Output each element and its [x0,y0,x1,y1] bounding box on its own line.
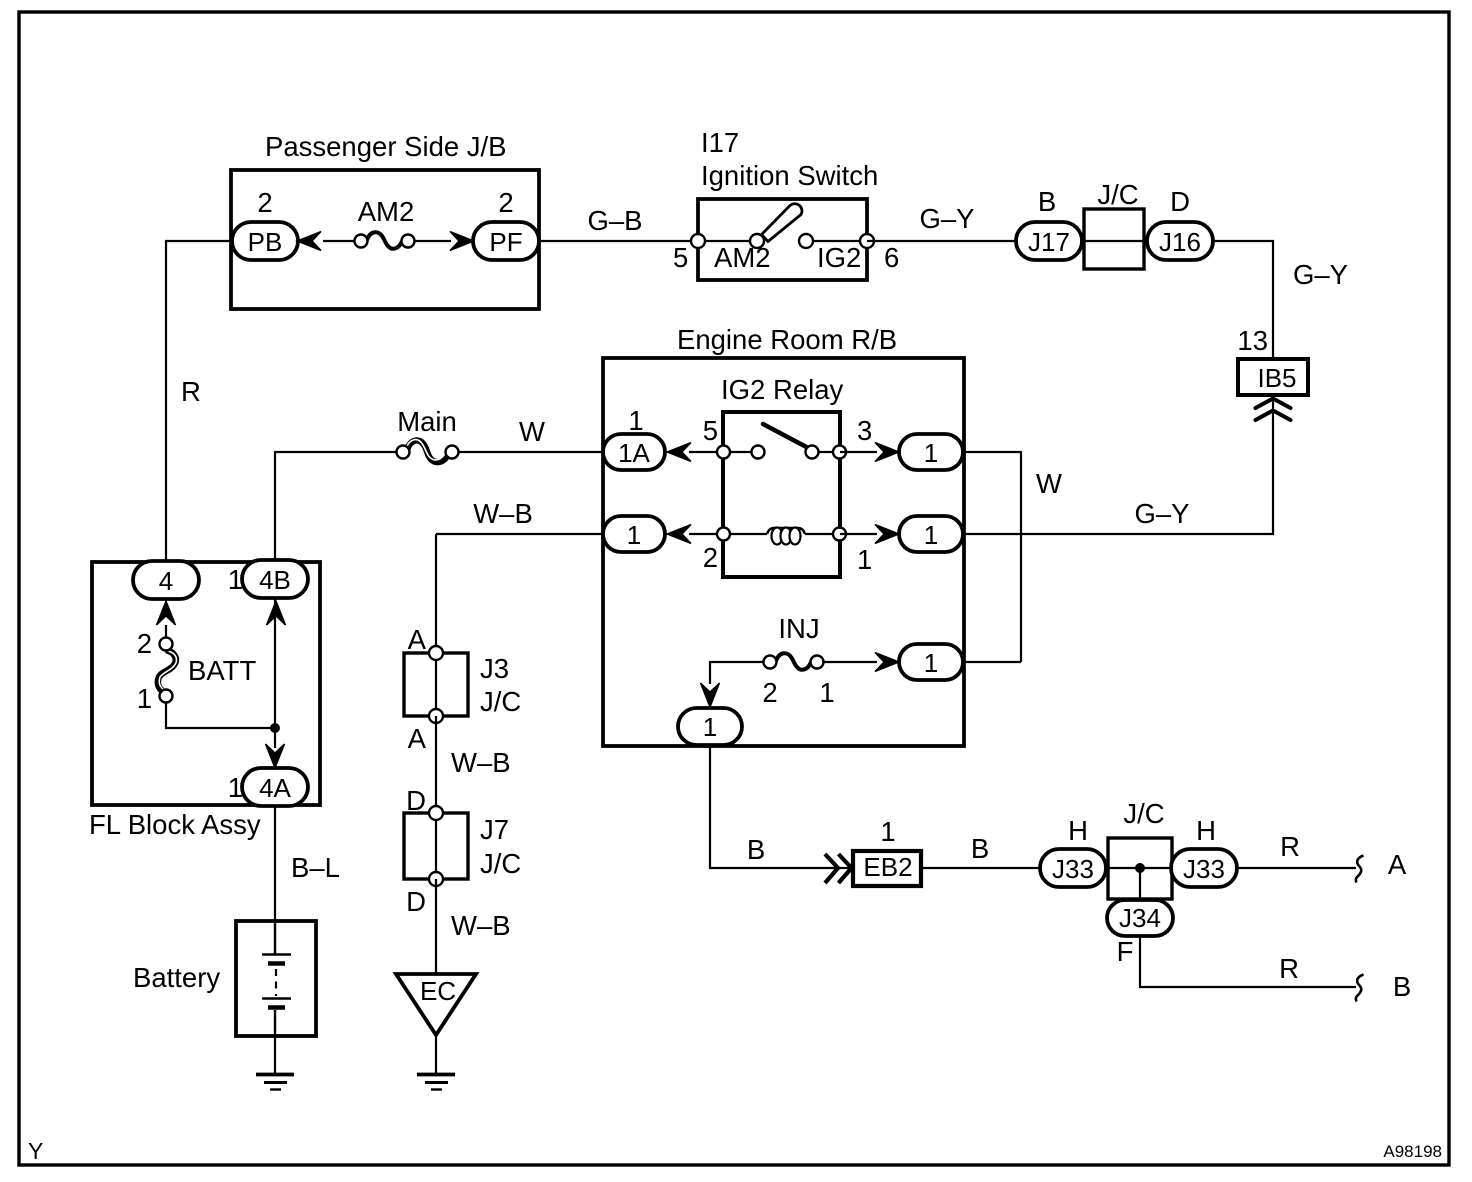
connector 1 row1 [899,434,963,470]
svg-text:1: 1 [924,520,938,550]
ground EC [417,1075,455,1090]
svg-text:2: 2 [498,187,513,218]
wire fuse to arrow [414,240,451,242]
svg-text:R: R [1279,953,1299,984]
wire Main to 1A [458,451,603,453]
svg-text:B–L: B–L [291,852,340,883]
relay switch right contact [806,446,819,459]
wire bottom oval 1 down to EB2 [710,745,851,868]
svg-text:Main: Main [397,406,457,437]
connector J33 right [1171,849,1237,887]
svg-text:W: W [519,416,545,447]
svg-text:13: 13 [1237,325,1268,356]
wire arrow to relay pin 5 [689,451,723,453]
svg-text:IB5: IB5 [1257,363,1296,393]
svg-text:PB: PB [248,227,283,257]
wire 4B down to 4A [274,598,276,748]
junction connector J3 box [404,653,468,716]
wire J7 to EC [435,879,437,973]
wire oval1 row1 right and down (W net) [963,452,1021,662]
svg-text:G–Y: G–Y [919,203,974,234]
svg-text:4B: 4B [259,565,291,595]
wire BATT to junction [166,703,275,728]
svg-text:3: 3 [857,415,872,446]
wire J3 to J7 [435,716,437,813]
wire PF to ignition switch [539,240,698,242]
J7 top terminal [429,806,443,820]
svg-text:5: 5 [673,242,688,273]
arrow down into bottom oval 1 [701,683,720,707]
svg-text:G–Y: G–Y [1293,259,1348,290]
svg-text:H: H [1068,815,1088,846]
wire IG2 contact to terminal 6 [806,240,867,242]
relay pin 2 contact [717,528,730,541]
connector 4B [242,560,308,598]
wire EC to ground [435,1036,437,1073]
svg-text:INJ: INJ [778,613,819,644]
svg-text:B: B [747,834,765,865]
svg-text:AM2: AM2 [358,196,415,227]
continuation squiggle B [1356,975,1364,1002]
IG2 relay box [723,412,840,577]
fuse AM2 [355,232,415,249]
connector PB [232,222,298,260]
arrow into oval 1 row1 [875,443,899,462]
svg-text:PF: PF [489,227,522,257]
svg-text:Battery: Battery [133,962,220,993]
svg-text:AM2: AM2 [714,242,771,273]
svg-text:5: 5 [703,415,718,446]
svg-text:B: B [1393,971,1411,1002]
svg-text:Ignition Switch: Ignition Switch [701,160,878,191]
connector 1 left row2 [603,516,665,552]
continuation squiggle A [1356,856,1364,883]
fuse Main (fusible link) [397,440,459,462]
svg-text:D: D [406,886,426,917]
arrow into oval 1 row2 right [875,525,899,544]
junction connector J7 box [404,813,468,879]
wire J16 to IB5 [1213,241,1273,359]
svg-text:A98198: A98198 [1383,1142,1442,1161]
svg-text:1: 1 [137,683,152,714]
svg-text:6: 6 [884,242,899,273]
arrow down into 4A [266,744,285,768]
svg-text:J/C: J/C [1097,179,1138,210]
wire relay pin2 to coil [723,533,767,535]
connector 1A [603,434,665,470]
terminal 6 contact [860,234,874,248]
svg-text:B: B [1038,186,1056,217]
svg-text:J/C: J/C [480,686,521,717]
wire arrow to relay pin 2 [689,533,723,535]
connector J33 left [1040,849,1106,887]
svg-text:W–B: W–B [473,498,533,529]
svg-text:FL Block Assy: FL Block Assy [89,809,261,840]
svg-text:J7: J7 [480,814,509,845]
svg-text:A: A [408,624,427,655]
wire PB to left corner and down to FL block pin 4 [166,241,233,562]
svg-text:Engine Room R/B: Engine Room R/B [677,324,897,355]
switch lever [762,204,802,242]
Passenger Side J/B box [231,170,539,309]
connector J17 [1016,222,1082,260]
svg-text:J/C: J/C [480,848,521,879]
connector EB2 box [853,851,921,886]
connector 4A [242,768,308,806]
svg-text:F: F [1117,936,1134,967]
wire terminal 5 to AM2 contact [698,240,757,242]
fuse INJ [764,653,824,670]
svg-text:1: 1 [924,648,938,678]
arrow into PF [450,232,474,251]
FL Block Assy box [92,562,320,805]
wire arrow to fuse AM2 [323,240,355,242]
svg-text:1: 1 [924,438,938,468]
wire battery to ground [274,1036,276,1073]
wire INJ oval right to W net [963,661,1021,663]
svg-text:EC: EC [420,976,456,1006]
svg-text:IG2 Relay: IG2 Relay [721,374,844,405]
wire W-B down to J3 [435,534,437,653]
junction connector J/C box bottom [1108,838,1172,899]
wire ignition to J17 [867,240,1016,242]
ground point EC triangle [396,974,476,1035]
svg-text:A: A [1388,849,1407,880]
arrow up into 4B [267,601,286,625]
svg-text:BATT: BATT [188,655,256,686]
shield chevrons below IB5 [1256,399,1291,421]
svg-text:J33: J33 [1183,854,1225,884]
wire relay pin5 to switch contact [723,451,758,453]
svg-text:2: 2 [703,542,718,573]
wire coil to relay pin 1 [805,533,840,535]
svg-text:H: H [1196,815,1216,846]
relay switch blade [763,424,812,450]
J3 bottom terminal [429,709,443,723]
svg-text:1: 1 [857,544,872,575]
svg-text:J16: J16 [1159,227,1201,257]
svg-text:1: 1 [628,405,643,436]
relay pin 3 contact [833,446,846,459]
svg-text:D: D [1170,186,1190,217]
wire EB2 to J33 [923,867,1040,869]
connector PF [473,222,539,260]
svg-text:G–B: G–B [587,205,642,236]
svg-text:2: 2 [257,187,272,218]
svg-text:IG2: IG2 [817,242,861,273]
connector 1 right row2 [899,516,963,552]
wire 4B up to Main fuse and 1A [275,452,397,560]
svg-text:1: 1 [880,816,895,847]
wire J33 to A [1237,867,1356,869]
connector 1 bottom [678,708,742,745]
svg-text:1: 1 [228,564,243,595]
svg-text:4: 4 [159,566,173,596]
arrow out of 1A [667,443,691,462]
connector J16 [1147,222,1213,260]
ground battery [256,1075,294,1090]
battery symbol [262,921,291,1036]
connector IB5 box [1238,359,1308,395]
J3 top terminal [429,646,443,660]
wire inside J3 [435,653,437,716]
svg-text:4A: 4A [259,773,291,803]
svg-text:Passenger Side J/B: Passenger Side J/B [265,131,507,162]
svg-text:2: 2 [762,677,777,708]
wire 4A to battery [274,806,276,921]
wire dot down to J34 [1139,868,1141,900]
arrow into PB [297,232,321,251]
relay switch left contact [752,446,765,459]
connector 1 INJ right [899,644,963,680]
svg-text:J/C: J/C [1123,798,1164,829]
svg-text:G–Y: G–Y [1134,498,1189,529]
wire INJ to arrow [823,661,877,663]
Engine Room R/B box [603,358,964,746]
svg-text:1: 1 [819,677,834,708]
svg-text:R: R [1280,831,1300,862]
arrow out of oval1 row2 [667,525,691,544]
svg-text:W–B: W–B [451,747,511,778]
svg-text:I17: I17 [701,127,739,158]
junction dot in J/C [1135,863,1145,873]
svg-text:J3: J3 [480,653,509,684]
double chevron into EB2 [825,854,852,883]
relay coil [767,528,805,545]
svg-text:Y: Y [28,1138,43,1164]
svg-text:W–B: W–B [451,910,511,941]
wire IB5 down and left to engine room [964,395,1273,534]
svg-text:R: R [181,376,201,407]
svg-text:2: 2 [137,628,152,659]
relay pin 1 contact [833,528,846,541]
svg-text:J17: J17 [1028,227,1070,257]
junction node [270,723,280,733]
wire J34 down to B [1140,936,1356,987]
svg-text:J34: J34 [1119,903,1161,933]
connector J34 [1107,900,1173,936]
svg-text:1A: 1A [618,438,650,468]
svg-text:EB2: EB2 [863,852,912,882]
svg-text:1: 1 [627,520,641,550]
svg-text:B: B [971,833,989,864]
svg-text:W: W [1036,468,1062,499]
relay pin 5 contact [717,446,730,459]
Battery box [236,921,316,1036]
wire arrow to BATT fuse [165,625,167,638]
wire relay pin3 to arrow [840,451,877,453]
IG2 contact [799,234,813,248]
J7 bottom terminal [429,872,443,886]
AM2 contact [750,234,764,248]
svg-text:J33: J33 [1052,854,1094,884]
wire W-B corner to oval 1 row2 [436,533,603,535]
svg-text:A: A [408,723,427,754]
wire INJ drop from fuse [710,662,763,684]
junction connector J/C box [1084,209,1144,269]
svg-text:1: 1 [228,772,243,803]
arrow into oval 1 INJ row [875,653,899,672]
wire through J/C bottom [1106,867,1171,869]
ignition switch I17 box [698,199,867,280]
wire relay pin1 to arrow [840,533,877,535]
svg-text:1: 1 [703,712,717,742]
wire inside J7 [435,813,437,879]
wire switch right contact to pin 3 [812,451,840,453]
arrow up into 4 [157,601,176,625]
terminal 5 contact [691,234,705,248]
wire through J/C [1082,240,1148,242]
fusible link BATT [158,638,177,703]
connector 4 [133,561,199,599]
